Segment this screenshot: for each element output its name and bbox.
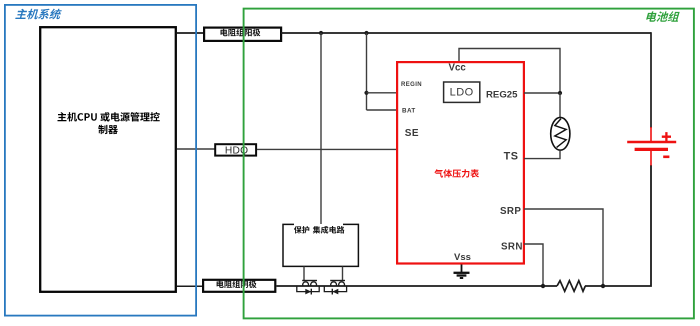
wire: controller to HDQ box [177, 148, 216, 150]
wire: Vcc to REG25 net [459, 49, 560, 94]
wire: branch down to REGIN/BAT [366, 33, 368, 110]
junction at REG25/thermistor [558, 91, 562, 95]
wire: thermistor to TS pin [524, 150, 560, 158]
svg-text:HDQ: HDQ [225, 146, 249, 157]
svg-text:SE: SE [405, 128, 419, 139]
wire: SRP to sense resistor right [524, 209, 603, 286]
junction at REGIN [364, 91, 368, 95]
gas gauge red text [434, 169, 479, 178]
wire: SRN to sense resistor left [524, 244, 543, 286]
pack anode label text [221, 29, 261, 37]
svg-text:BAT: BAT [402, 108, 416, 115]
transistor Q2 (charge FET) [330, 280, 345, 282]
transistor Q1 (discharge FET) [302, 280, 317, 282]
svg-text:TS: TS [504, 151, 519, 163]
wire: controller to pack-cathode label [177, 285, 203, 287]
wire: bottom rail resistor to battery negative [585, 165, 651, 286]
protection IC box (保护集成电路) [283, 224, 358, 266]
svg-text:SRP: SRP [500, 206, 521, 217]
body diode of Q1 [297, 286, 319, 292]
node: pack anode label box (电阻组阳极) [204, 28, 281, 41]
node: pack cathode label box (电阻组阴极) [203, 280, 275, 292]
wire: to BAT pin [367, 109, 397, 111]
svg-text:Vcc: Vcc [449, 62, 467, 73]
junction SRP tap [601, 284, 605, 288]
wire: down to thermistor [559, 93, 561, 118]
svg-text:REGIN: REGIN [401, 82, 422, 88]
wire: to REGIN pin [367, 92, 397, 94]
controller text line2 (制器) [98, 125, 118, 134]
wire: branch down to protection IC [320, 33, 322, 224]
sense resistor R1 [557, 281, 585, 292]
wire: gate of Q1 [303, 267, 305, 281]
LDO block [444, 82, 480, 102]
host system boundary box [5, 5, 196, 316]
controller text line1 (主机CPU 或电源管理控) [58, 112, 160, 122]
battery B1 long plate [627, 141, 676, 143]
thermistor RT1 [551, 117, 570, 150]
svg-text:Vss: Vss [454, 252, 471, 263]
node: HDQ label box [215, 144, 256, 155]
junction at REGIN/BAT branch [364, 31, 368, 35]
wire: controller to pack-anode label [177, 32, 204, 34]
protection IC text part2 [313, 226, 345, 234]
protection IC text part1 [294, 226, 309, 234]
battery B1 short plate [635, 148, 668, 151]
wire: bottom rail cathode label to sense resistor [277, 285, 558, 287]
pack cathode label text [217, 280, 257, 288]
svg-text:LDO: LDO [450, 87, 474, 99]
ground at Vss [461, 265, 463, 273]
wire: top rail down to battery [650, 32, 652, 128]
battery minus sign [663, 156, 669, 159]
label: host system (主机系统) [15, 9, 62, 20]
battery B1 positive lead [650, 127, 652, 141]
wire: HDQ box to SE pin [257, 148, 396, 150]
battery plus sign [662, 132, 671, 141]
wire: top rail from anode label to battery positive [281, 32, 651, 34]
junction at protection-IC branch [319, 31, 323, 35]
label: battery pack (电池组) [646, 11, 680, 22]
gas gauge IC box (气体压力表) [397, 62, 524, 263]
wire: gate of Q2 [342, 267, 344, 281]
body diode of Q2 [324, 286, 346, 292]
svg-text:REG25: REG25 [486, 90, 518, 101]
junction SRN tap [541, 284, 545, 288]
host CPU / power-management controller block [40, 27, 176, 292]
wire: REG25 pin [524, 92, 560, 94]
battery B1 negative lead [650, 151, 652, 166]
battery pack boundary box [244, 9, 694, 319]
svg-text:SRN: SRN [501, 241, 523, 252]
